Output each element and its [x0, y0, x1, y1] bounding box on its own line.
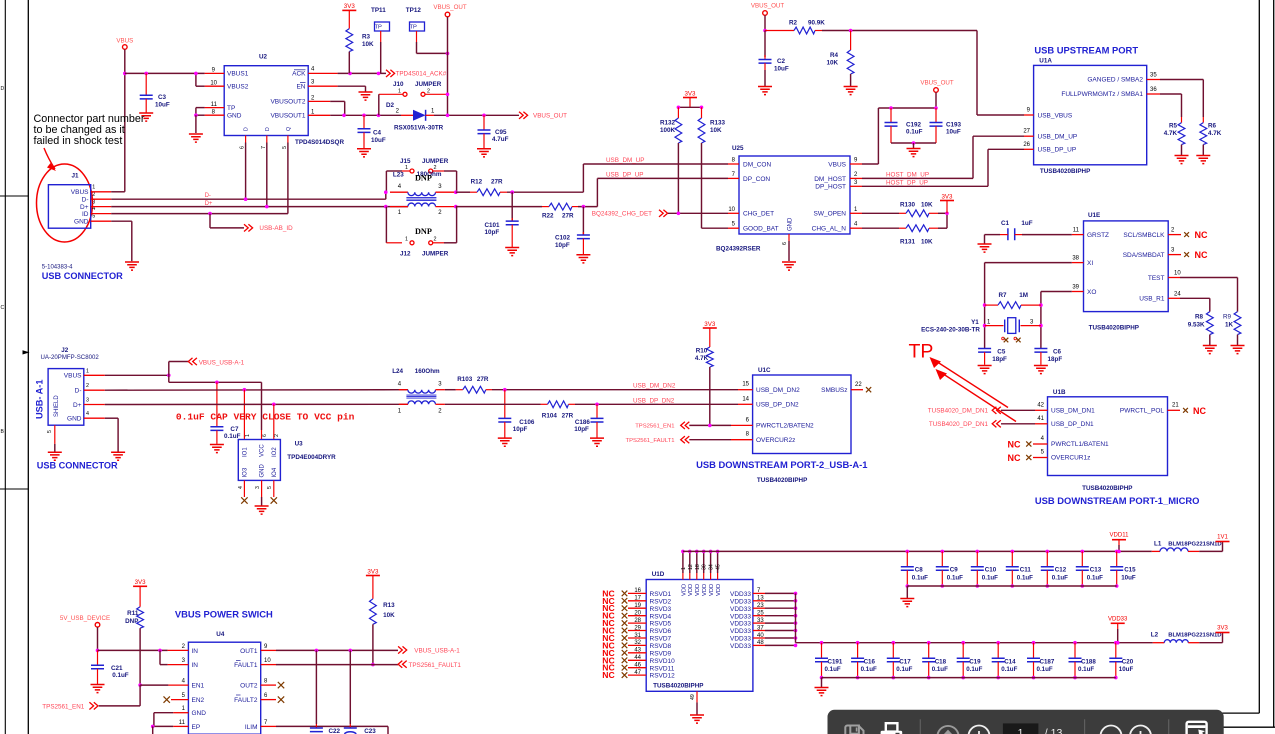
svg-text:10uF: 10uF	[155, 102, 170, 109]
svg-text:3: 3	[1030, 319, 1034, 325]
svg-text:2: 2	[396, 109, 400, 115]
svg-text:USB UPSTREAM PORT: USB UPSTREAM PORT	[1034, 45, 1138, 56]
svg-text:XI: XI	[1087, 260, 1093, 267]
svg-text:24: 24	[1174, 291, 1181, 297]
svg-text:VDD33: VDD33	[1108, 616, 1128, 622]
capacitor C14 0.1uF	[996, 641, 1000, 645]
U2 EN pin3 stub and wire	[308, 85, 337, 87]
svg-text:0.1uF CAP VERY CLOSE TO VCC pi: 0.1uF CAP VERY CLOSE TO VCC pin	[176, 412, 355, 423]
svg-text:3: 3	[86, 398, 89, 404]
svg-text:RSVD5: RSVD5	[650, 621, 672, 628]
svg-text:49: 49	[690, 694, 696, 700]
power flag 1V1	[1216, 541, 1230, 543]
IC U25 BQ24392RSER box	[739, 156, 850, 234]
svg-text:46: 46	[634, 663, 641, 669]
svg-text:11: 11	[1073, 228, 1080, 234]
svg-text:TPS2561_EN1: TPS2561_EN1	[42, 703, 85, 710]
capacitor C191 0.1uF	[820, 641, 824, 645]
svg-text:10uF: 10uF	[774, 66, 789, 73]
svg-text:TPS2561_FAULT1: TPS2561_FAULT1	[409, 662, 462, 669]
capacitor C18 0.1uF	[927, 641, 931, 645]
wire choke to R12	[456, 191, 470, 193]
junction R4	[849, 29, 853, 33]
svg-text:PWRCTL2/BATEN2: PWRCTL2/BATEN2	[756, 423, 814, 430]
svg-text:38: 38	[1072, 256, 1079, 262]
svg-text:Y1: Y1	[971, 319, 979, 326]
svg-text:0.1uF: 0.1uF	[947, 575, 963, 582]
svg-text:TP: TP	[375, 25, 383, 31]
capacitor C106 10pF	[504, 390, 506, 419]
svg-text:FAULT1: FAULT1	[234, 662, 258, 669]
junction U2 to D-	[244, 197, 248, 201]
crystal NC pins x-marks	[1002, 337, 1005, 340]
U4 OUT2 pin NC	[261, 684, 276, 686]
svg-text:VBUS_USB-A-1: VBUS_USB-A-1	[414, 648, 460, 655]
svg-text:R130: R130	[900, 202, 916, 209]
ground under C102	[576, 255, 590, 263]
svg-text:VDD33: VDD33	[730, 591, 751, 598]
wire CHG_DET	[668, 212, 728, 214]
svg-text:3: 3	[255, 486, 261, 489]
svg-text:10: 10	[264, 658, 271, 664]
svg-text:C188: C188	[1081, 658, 1096, 665]
ferrite bead L1 BLM18PG221SN1D	[1152, 550, 1160, 552]
U3 IO4 pin NC	[273, 480, 275, 497]
svg-text:D-: D-	[75, 388, 82, 395]
svg-text:R132: R132	[660, 120, 676, 127]
off-page connector VBUS_USB-A-1	[168, 362, 170, 376]
wire IO2 to U3	[273, 404, 275, 430]
wire USB_DP_UP to U25 pin7	[596, 178, 598, 206]
svg-text:3V3: 3V3	[135, 579, 147, 586]
svg-text:USB_DM_DN1: USB_DM_DN1	[1051, 408, 1095, 415]
junction VBUSOUT2 joins	[342, 114, 346, 118]
wire TP12 down to VBUS_OUT vertical	[416, 31, 418, 42]
ground on EN pin	[365, 86, 367, 91]
svg-text:TP: TP	[909, 341, 934, 363]
svg-text:19: 19	[634, 603, 641, 609]
note leader arrow	[44, 148, 55, 169]
svg-text:10pF: 10pF	[574, 426, 589, 433]
svg-text:5: 5	[282, 146, 288, 149]
svg-text:R133: R133	[710, 120, 726, 127]
ground under C21	[91, 685, 105, 693]
svg-text:USB-AB_ID: USB-AB_ID	[259, 225, 293, 232]
svg-text:33: 33	[757, 618, 764, 624]
svg-text:RSVD2: RSVD2	[650, 598, 672, 605]
wire ID row	[111, 213, 288, 215]
svg-text:29: 29	[634, 625, 641, 631]
svg-text:GND: GND	[67, 416, 82, 423]
wire EN1 to U1C pin6	[689, 424, 731, 426]
ferrite bead L2 BLM18PG221SN1D	[1153, 642, 1165, 644]
svg-text:VBUSOUT1: VBUSOUT1	[270, 113, 305, 120]
svg-text:NC: NC	[602, 670, 614, 680]
svg-text:GOOD_BAT: GOOD_BAT	[743, 226, 779, 233]
svg-text:8: 8	[212, 109, 216, 115]
wire VBUS_OUT down	[764, 15, 766, 30]
svg-text:BQ24392_CHG_DET: BQ24392_CHG_DET	[592, 211, 652, 218]
svg-text:PWRCTL1/BATEN1: PWRCTL1/BATEN1	[1051, 441, 1109, 448]
svg-text:R3: R3	[362, 33, 371, 40]
svg-text:D-: D-	[82, 197, 89, 204]
junction R13/FAULT1	[371, 663, 375, 667]
svg-text:C1: C1	[1001, 220, 1010, 227]
U1A pin stubs	[1024, 114, 1034, 116]
toolbar zoom-out icon	[1101, 726, 1122, 734]
J2 GND wire to ground	[105, 417, 118, 419]
svg-text:R9: R9	[1223, 314, 1232, 321]
U25 pin stubs right	[850, 163, 862, 165]
capacitor C13 0.1uF	[1081, 550, 1085, 554]
svg-text:10pF: 10pF	[485, 229, 500, 236]
svg-text:USB DOWNSTREAM PORT-2_USB-A-1: USB DOWNSTREAM PORT-2_USB-A-1	[696, 459, 867, 470]
svg-text:1: 1	[398, 408, 402, 414]
capacitor C6 18pF	[1034, 349, 1047, 353]
ground under R8	[1203, 346, 1217, 354]
svg-text:C13: C13	[1090, 567, 1102, 574]
svg-text:9: 9	[1027, 108, 1031, 114]
svg-text:TUSB4020_DM_DN1: TUSB4020_DM_DN1	[928, 407, 989, 414]
svg-text:2: 2	[434, 237, 437, 243]
svg-text:RSVD9: RSVD9	[650, 650, 672, 657]
svg-text:4.7K: 4.7K	[1208, 130, 1222, 137]
resistor R22	[542, 206, 549, 208]
svg-text:C15: C15	[1124, 567, 1136, 574]
capacitor C2	[764, 31, 766, 58]
svg-text:VBUS_OUT: VBUS_OUT	[433, 4, 467, 11]
svg-text:10K: 10K	[362, 41, 374, 48]
svg-text:DP_CON: DP_CON	[743, 176, 770, 183]
svg-text:0.1uF: 0.1uF	[896, 666, 912, 673]
svg-text:C192: C192	[906, 122, 922, 129]
svg-text:TPD4S014DSQR: TPD4S014DSQR	[295, 139, 344, 146]
svg-text:RSVD11: RSVD11	[650, 665, 675, 672]
svg-text:VBUS: VBUS	[116, 38, 133, 45]
svg-text:NC: NC	[1008, 453, 1021, 463]
svg-text:8: 8	[264, 679, 268, 685]
U1C SMBUSz pin NC	[851, 389, 863, 391]
U1E SDA pin NC	[1168, 254, 1181, 256]
wire DP_HOST to U1A	[862, 185, 988, 187]
wire TP11 down to ACK net	[380, 31, 382, 42]
ground under C106	[498, 438, 512, 446]
svg-text:11: 11	[211, 102, 218, 108]
capacitor C8 0.1uF	[906, 550, 910, 554]
svg-text:12: 12	[688, 564, 694, 570]
svg-text:U2: U2	[259, 54, 268, 61]
svg-text:NC: NC	[1193, 406, 1206, 416]
IC U1C box	[753, 375, 851, 454]
wire L1 to 1V1	[1199, 550, 1222, 552]
toolbar separator 2	[1084, 719, 1086, 734]
wire VBUS row to U2 pin9	[125, 72, 205, 74]
svg-text:1: 1	[311, 109, 315, 115]
resistor R8 9.53K	[1206, 312, 1213, 335]
wire SMBA1 to R5	[1160, 93, 1182, 95]
svg-text:R12: R12	[471, 179, 483, 186]
svg-text:4: 4	[854, 222, 858, 228]
power flag 3V3 (R10)	[703, 327, 717, 329]
svg-text:1: 1	[1018, 727, 1024, 734]
wire R2 to U1A USB_VBUS	[822, 30, 977, 32]
capacitor C186 10pF	[596, 404, 598, 418]
svg-text:ECS-240-20-30B-TR: ECS-240-20-30B-TR	[921, 327, 980, 334]
svg-text:6: 6	[264, 693, 268, 699]
svg-text:J10: J10	[393, 81, 404, 88]
wire USB_DM_UP to U25 pin8	[582, 164, 584, 192]
ground under C186	[590, 438, 604, 446]
ground under U1D	[690, 715, 704, 723]
svg-text:SDA/SMBDAT: SDA/SMBDAT	[1123, 252, 1165, 259]
svg-text:NC: NC	[1195, 250, 1208, 260]
svg-text:3V3: 3V3	[1217, 626, 1228, 632]
svg-text:RSVD6: RSVD6	[650, 628, 672, 635]
svg-text:0.1uF: 0.1uF	[982, 575, 998, 582]
wire R11 to EN1 net	[139, 628, 141, 685]
svg-text:4: 4	[398, 184, 402, 190]
svg-text:43: 43	[634, 648, 641, 654]
svg-text:USB_DP_UP: USB_DP_UP	[606, 172, 643, 179]
svg-text:failed in shock test: failed in shock test	[34, 135, 123, 147]
svg-text:7: 7	[732, 172, 736, 178]
resistor R7 1M across crystal	[983, 303, 987, 307]
svg-text:3: 3	[182, 658, 186, 664]
wire R133 to GOOD_BAT	[701, 143, 703, 228]
junction R10/EN1	[708, 424, 712, 428]
capacitor C101	[511, 192, 513, 221]
ground under C8	[906, 586, 908, 598]
sheet frame right borders	[1258, 0, 1260, 713]
svg-text:4: 4	[311, 67, 315, 73]
svg-text:1K: 1K	[1225, 322, 1234, 329]
svg-text:2: 2	[438, 408, 442, 414]
svg-text:48: 48	[757, 640, 764, 646]
svg-text:ACK: ACK	[292, 71, 306, 78]
resistor R12	[470, 191, 477, 193]
svg-text:IN: IN	[192, 648, 199, 655]
svg-text:0.1uF: 0.1uF	[966, 666, 982, 673]
wire J15 left leg	[402, 170, 410, 172]
svg-text:C20: C20	[1122, 658, 1134, 665]
svg-text:VDD: VDD	[716, 584, 722, 596]
U4 OUT1 wire	[261, 649, 276, 651]
svg-text:6: 6	[782, 242, 788, 245]
svg-text:44: 44	[634, 655, 641, 661]
svg-text:27R: 27R	[562, 212, 574, 219]
title block top lines bottom right	[1221, 712, 1259, 714]
svg-text:2: 2	[438, 210, 442, 216]
junction choke left bottom	[384, 205, 388, 209]
svg-text:10: 10	[728, 207, 735, 213]
svg-text:HOST_DM_UP: HOST_DM_UP	[886, 171, 929, 178]
svg-text:R22: R22	[542, 212, 554, 219]
svg-text:4: 4	[238, 486, 244, 489]
svg-text:4: 4	[182, 679, 186, 685]
wire J1 GND down to ground	[111, 220, 132, 222]
svg-text:D: D	[265, 127, 271, 131]
wire IO1 to U3	[243, 390, 245, 430]
svg-text:VBUS_USB-A-1: VBUS_USB-A-1	[199, 359, 245, 366]
svg-text:USB_R1: USB_R1	[1139, 296, 1165, 303]
svg-text:5V_USB_DEVICE: 5V_USB_DEVICE	[60, 615, 110, 622]
wire J1 VBUS to vertical	[111, 191, 125, 193]
svg-text:SW_OPEN: SW_OPEN	[813, 211, 846, 218]
resistor R133 10K	[701, 107, 703, 118]
toolbar separator 1	[919, 719, 921, 734]
resistor R10 4.7K	[709, 328, 711, 347]
U2 VBUSOUT1 pin1 stub	[308, 114, 330, 116]
svg-text:OVERCUR1z: OVERCUR1z	[1051, 455, 1090, 462]
junction choke left top	[384, 190, 388, 194]
capacitor C3	[144, 72, 148, 76]
U4 ILIM wire	[261, 725, 276, 727]
svg-text:RSVD10: RSVD10	[650, 658, 676, 665]
U1E SCL pin NC	[1168, 234, 1181, 236]
U1B PWRCTL_POL pin NC	[1168, 409, 1181, 411]
svg-text:10uF: 10uF	[371, 137, 386, 144]
svg-text:U1A: U1A	[1039, 58, 1052, 65]
capacitor C15 10uF	[1115, 550, 1119, 554]
svg-text:5: 5	[267, 486, 273, 489]
svg-text:R8: R8	[1195, 314, 1204, 321]
svg-text:7: 7	[261, 146, 267, 149]
svg-text:VDD33: VDD33	[730, 613, 751, 620]
ground under C3	[139, 113, 153, 121]
junction C186	[595, 403, 599, 407]
svg-text:L23: L23	[393, 172, 404, 179]
capacitor C5 18pF	[978, 349, 991, 353]
svg-text:VDD: VDD	[688, 584, 694, 596]
svg-text:EP: EP	[192, 724, 201, 731]
resistor R3	[346, 29, 353, 52]
svg-text:TPD4S014_ACK#: TPD4S014_ACK#	[396, 71, 447, 78]
wire J15 right leg	[433, 170, 444, 172]
U1E USB_R1 pin stub	[1168, 297, 1180, 299]
svg-text:NC: NC	[1008, 440, 1021, 450]
D- jog up to choke row	[385, 192, 387, 199]
TP leader arrow 1	[935, 361, 1008, 408]
toolbar separator 3	[1168, 719, 1170, 734]
wire L24 pin3 to R103	[445, 389, 456, 391]
IC U1B box	[1048, 397, 1168, 476]
IC U1E box	[1084, 221, 1169, 312]
svg-text:4.7uF: 4.7uF	[492, 136, 509, 143]
svg-text:C9: C9	[950, 567, 958, 574]
svg-text:5: 5	[182, 693, 186, 699]
svg-text:0.1uF: 0.1uF	[825, 666, 841, 673]
wire cap rail top	[878, 107, 936, 109]
svg-text:C95: C95	[495, 129, 507, 136]
wire R104 to U1C pin14	[575, 403, 738, 405]
svg-text:34: 34	[709, 564, 715, 570]
wire IN net	[98, 649, 168, 651]
svg-text:17: 17	[634, 596, 641, 602]
ground under R5	[1175, 156, 1189, 164]
wire J10 pin1 to anode net	[379, 93, 403, 95]
svg-text:22: 22	[855, 382, 862, 388]
svg-text:1: 1	[398, 210, 402, 216]
svg-text:C12: C12	[1055, 567, 1067, 574]
U1E TEST pin stub	[1168, 277, 1180, 279]
svg-text:TUSB4020BIPHP: TUSB4020BIPHP	[653, 683, 703, 690]
wire USB-AB_ID branch	[209, 214, 211, 228]
svg-text:30: 30	[702, 564, 708, 570]
svg-text:C5: C5	[997, 349, 1006, 356]
svg-text:RSVD4: RSVD4	[650, 613, 672, 620]
svg-text:D2: D2	[386, 102, 395, 109]
svg-text:0.1uF: 0.1uF	[932, 666, 948, 673]
ground under C192/C193	[913, 143, 915, 148]
ground under C101	[505, 248, 519, 256]
svg-text:C19: C19	[969, 658, 981, 665]
svg-text:D+: D+	[205, 201, 213, 207]
wire DM_HOST to U1A	[862, 177, 973, 179]
svg-text:VBUS_OUT: VBUS_OUT	[751, 3, 785, 10]
ground under C6	[1034, 366, 1048, 374]
svg-text:1: 1	[405, 165, 408, 171]
svg-text:RSVD1: RSVD1	[650, 591, 672, 598]
svg-text:VDD33: VDD33	[730, 606, 751, 613]
svg-text:2: 2	[1171, 228, 1175, 234]
wire J2 D- row to L24	[105, 389, 408, 392]
svg-text:36: 36	[1150, 87, 1157, 93]
wire VBUS to VCC branch	[168, 375, 170, 382]
svg-text:DP_HOST: DP_HOST	[815, 184, 846, 191]
svg-text:0.1uF: 0.1uF	[912, 575, 928, 582]
svg-text:2: 2	[427, 89, 430, 95]
svg-text:R13: R13	[383, 602, 395, 609]
wire XI to crystal	[985, 262, 1072, 264]
svg-text:C11: C11	[1020, 567, 1032, 574]
svg-text:2: 2	[311, 95, 315, 101]
wire TEST to R9	[1180, 277, 1238, 279]
junction U2 to D+	[265, 205, 269, 209]
VDD33 bottom rail	[822, 677, 1116, 679]
svg-text:5: 5	[92, 214, 95, 220]
svg-text:VDD: VDD	[709, 584, 715, 596]
svg-text:0.1uF: 0.1uF	[1087, 575, 1103, 582]
svg-text:39: 39	[1072, 285, 1079, 291]
svg-text:10: 10	[210, 80, 217, 86]
junction C101	[510, 190, 514, 194]
svg-text:C14: C14	[1004, 658, 1016, 665]
svg-text:9: 9	[264, 644, 268, 650]
resistor R130 10K on SW_OPEN	[862, 212, 899, 214]
svg-text:TP: TP	[227, 105, 235, 112]
svg-text:VCC: VCC	[260, 444, 266, 457]
svg-text:1: 1	[398, 89, 401, 95]
ground under C5	[978, 366, 992, 374]
svg-text:J1: J1	[72, 173, 80, 180]
svg-text:10uF: 10uF	[1121, 575, 1136, 582]
svg-text:40: 40	[757, 633, 764, 639]
VDD33 vertical bus	[795, 593, 797, 642]
svg-text:R6: R6	[1208, 123, 1217, 130]
svg-text:VBUS2: VBUS2	[227, 84, 249, 91]
svg-text:VDD33: VDD33	[730, 621, 751, 628]
svg-text:TP: TP	[410, 25, 418, 31]
svg-text:CHG_AL_N: CHG_AL_N	[812, 226, 847, 233]
svg-text:2: 2	[92, 192, 95, 198]
capacitor C192	[890, 108, 892, 123]
svg-text:9: 9	[854, 158, 858, 164]
off-page connector USB-AB_ID	[244, 224, 253, 231]
wire VBUS_OUT down to rail	[935, 92, 937, 108]
svg-text:9: 9	[212, 68, 216, 74]
svg-text:C186: C186	[575, 419, 591, 426]
wire J10 pin2 to VBUS_OUT	[425, 93, 448, 95]
